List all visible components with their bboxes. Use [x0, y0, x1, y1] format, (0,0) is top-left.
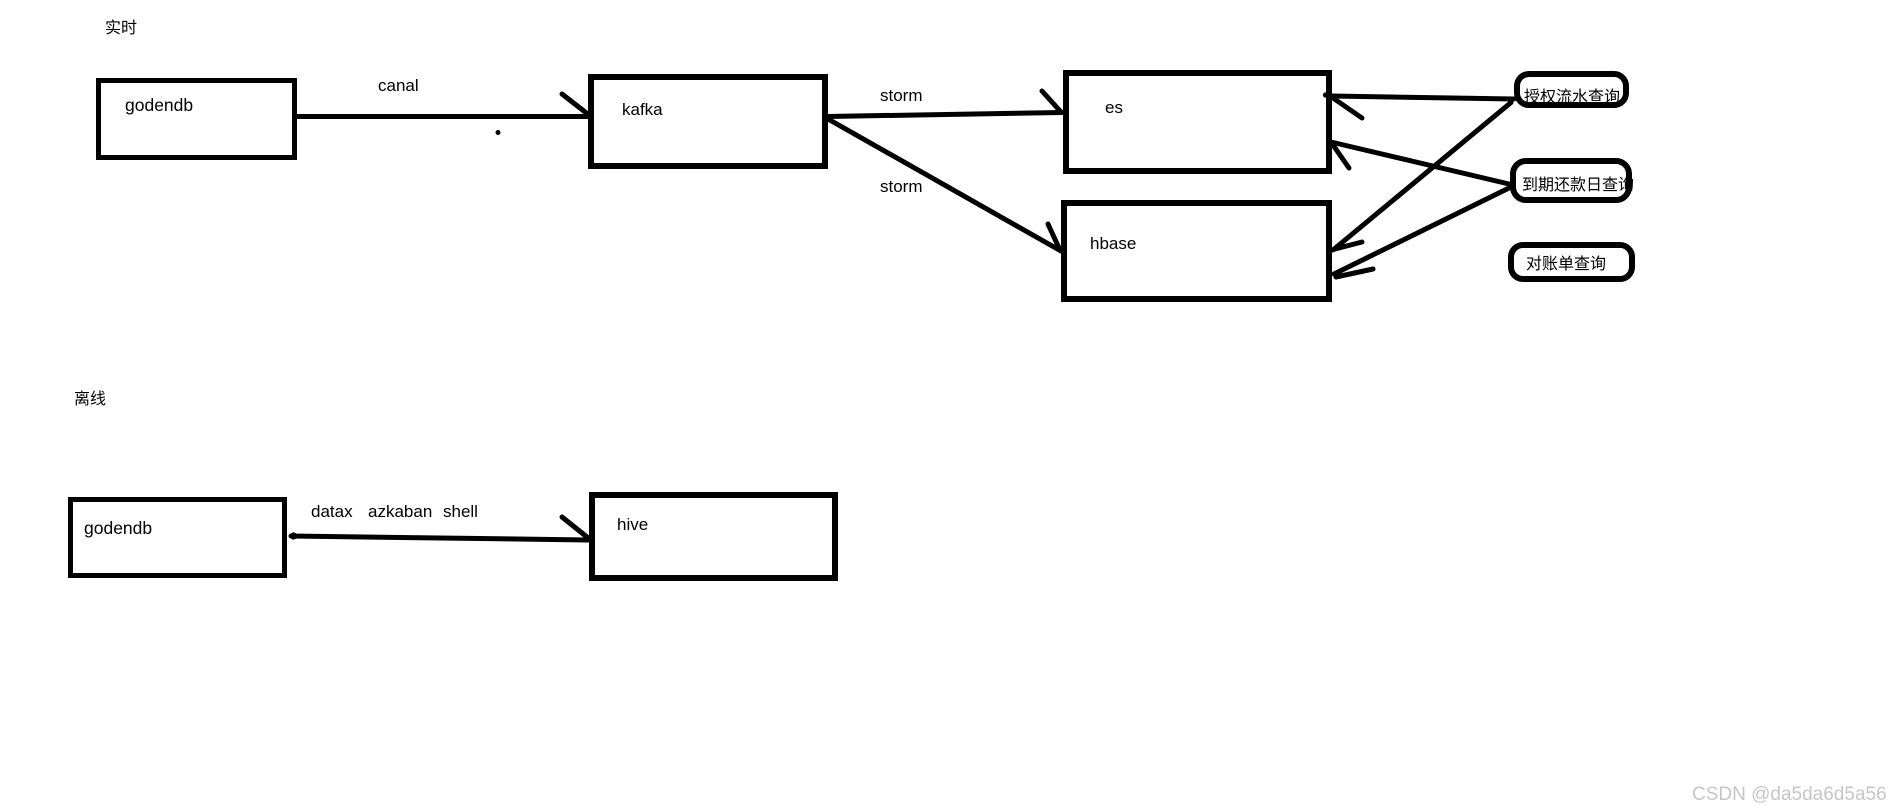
svg-text:shell: shell — [443, 502, 478, 521]
svg-text:CSDN @da5da6d5a56: CSDN @da5da6d5a56 — [1692, 784, 1887, 805]
box godendb (realtime) — [99, 81, 295, 158]
rounded box 对账单查询 — [1511, 245, 1632, 279]
box godendb (offline) — [71, 500, 285, 576]
svg-text:azkaban: azkaban — [368, 502, 432, 521]
rounded box 到期还款日查询 — [1513, 161, 1634, 200]
svg-text:canal: canal — [378, 76, 419, 95]
wire 到期还款日查询 to hbase — [1334, 188, 1509, 274]
wire kafka to hbase — [828, 119, 1061, 251]
svg-text:godendb: godendb — [125, 95, 193, 115]
arrowhead at es left — [1042, 91, 1061, 112]
svg-text:实时: 实时 — [105, 19, 137, 37]
box hive — [592, 495, 835, 578]
svg-text:es: es — [1105, 98, 1123, 117]
svg-text:kafka: kafka — [622, 100, 663, 119]
box hbase — [1064, 203, 1329, 299]
arrowhead at es right (from 到期还款日查询) — [1333, 145, 1349, 168]
arrowhead at hbase right (from 到期还款日查询) — [1336, 269, 1373, 277]
wire start blob — [290, 532, 297, 539]
svg-text:godendb: godendb — [84, 518, 152, 538]
wire 授权流水查询 to es — [1332, 96, 1514, 99]
svg-text:授权流水查询: 授权流水查询 — [1524, 88, 1620, 106]
wire kafka to es — [827, 113, 1062, 117]
rounded box 授权流水查询 — [1517, 74, 1626, 106]
wire godendb to kafka — [297, 114, 590, 119]
svg-text:离线: 离线 — [74, 390, 106, 408]
wire tip dot inside es — [1323, 92, 1328, 97]
box es — [1066, 73, 1329, 171]
svg-text:storm: storm — [880, 86, 923, 105]
svg-text:datax: datax — [311, 502, 353, 521]
arrowhead at hive — [562, 517, 587, 537]
wire 到期还款日查询 to es — [1331, 142, 1509, 184]
arrowhead at es right (from 授权流水查询) — [1333, 98, 1362, 118]
wire godendb to hive — [291, 536, 588, 540]
svg-text:storm: storm — [880, 177, 923, 196]
arrowhead at hbase left — [1048, 224, 1059, 248]
arrowhead at hbase right (from 授权流水查询) — [1335, 242, 1362, 249]
box kafka — [591, 77, 825, 166]
arrowhead at kafka — [562, 94, 589, 115]
svg-text:hive: hive — [617, 515, 648, 534]
svg-text:到期还款日查询: 到期还款日查询 — [1522, 176, 1634, 194]
stray dot — [496, 130, 501, 135]
wire 授权流水查询 to hbase — [1333, 103, 1511, 251]
svg-text:hbase: hbase — [1090, 234, 1136, 253]
svg-text:对账单查询: 对账单查询 — [1526, 255, 1606, 273]
